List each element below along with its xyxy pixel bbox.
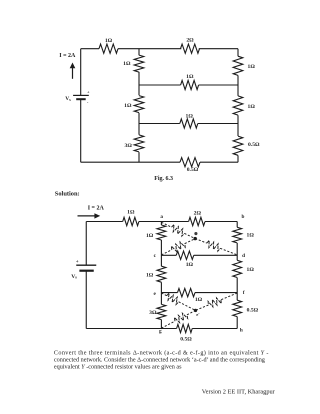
wire bottom rail g-h solution fig <box>86 328 237 330</box>
resistor 1&#937; d-f solution fig <box>233 260 255 277</box>
svg-text:0.5Ω: 0.5Ω <box>180 337 192 343</box>
svg-text:c: c <box>154 253 157 259</box>
star node e' (lower Y center) <box>194 309 200 317</box>
svg-text:e: e <box>153 291 156 297</box>
dashed Y-resistor c to star node (upper) <box>161 239 195 255</box>
resistor 1&#937; b-d solution fig <box>233 227 255 243</box>
svg-text:1Ω: 1Ω <box>247 233 255 239</box>
wire left branch solution fig <box>85 222 87 329</box>
paragraph text line 1 <box>54 349 269 356</box>
footer Version 2 EE IIT, Kharagpur <box>202 389 276 396</box>
svg-text:Version 2 EE IIT, Kharagpur: Version 2 EE IIT, Kharagpur <box>202 389 276 396</box>
svg-text:3Ω: 3Ω <box>149 310 157 316</box>
svg-text:d: d <box>242 253 245 259</box>
dashed Y-resistor e to star node e' (lower) <box>161 293 195 310</box>
svg-text:1Ω: 1Ω <box>186 74 194 80</box>
star node label dot <box>194 232 197 235</box>
svg-text:e′: e′ <box>196 312 199 317</box>
svg-text:h: h <box>240 328 243 334</box>
svg-text:Convert the three terminals: Convert the three terminals Δ-network (a… <box>54 349 269 356</box>
resistor 0.5&#937; f-h solution fig <box>233 300 259 316</box>
resistor 1&#937; top-left solution fig <box>123 210 139 226</box>
svg-text:Vs: Vs <box>65 96 71 102</box>
wire rail e-f fig6.3 <box>139 123 238 125</box>
svg-text:I = 2A: I = 2A <box>88 206 105 212</box>
wire right branch b-d-f-h solution fig <box>236 222 238 329</box>
wire left branch fig6.3 <box>80 49 82 163</box>
resistor 1&#937; top-left fig6.3 <box>99 38 118 54</box>
wire top rail fig6.3 <box>81 48 238 50</box>
resistor 1&#937; rail c-d solution fig <box>176 251 194 268</box>
paragraph text line 2 <box>54 357 265 364</box>
svg-text:1Ω: 1Ω <box>124 103 132 109</box>
node h <box>240 328 243 334</box>
wire rail e-f solution fig <box>161 292 237 294</box>
svg-text:Vs: Vs <box>71 274 77 280</box>
svg-text:a: a <box>160 214 163 220</box>
svg-text:equivalent Y -connected resist: equivalent Y -connected resistor values … <box>54 364 182 371</box>
voltage source Vs (battery) solution fig <box>71 260 96 280</box>
node f <box>243 290 245 296</box>
heading Solution: <box>55 190 80 197</box>
svg-text:+: + <box>76 260 79 265</box>
svg-text:1Ω: 1Ω <box>195 297 203 303</box>
wire inner column fig6.3 <box>138 49 140 163</box>
current source arrow I=2A fig6.3 <box>59 53 76 79</box>
svg-text:I = 2A: I = 2A <box>59 53 76 59</box>
resistor 1&#937; node a-c fig6.3 <box>123 55 144 72</box>
dashed Y-resistor g to star node e' (lower) <box>161 310 195 328</box>
svg-text:0.5Ω: 0.5Ω <box>247 308 259 314</box>
svg-text:+: + <box>87 90 90 95</box>
wire rail c-d fig6.3 <box>139 84 238 86</box>
svg-text:-: - <box>87 99 89 104</box>
svg-text:1Ω: 1Ω <box>127 210 135 216</box>
wire top rail solution fig <box>86 221 237 223</box>
svg-text:1Ω: 1Ω <box>248 104 256 110</box>
resistor 0.5&#937; bottom fig6.3 <box>180 158 200 174</box>
svg-text:1Ω: 1Ω <box>248 64 256 70</box>
svg-text:b: b <box>242 214 245 220</box>
node e <box>153 291 156 297</box>
svg-text:1Ω: 1Ω <box>247 267 255 273</box>
resistor 1&#937; node b-d fig6.3 <box>233 56 255 75</box>
resistor 1&#937; rail e-f solution fig <box>178 288 203 302</box>
wire right branch fig6.3 <box>237 49 239 163</box>
resistor 2&#937; top-right fig6.3 <box>181 37 200 53</box>
wire inner column a-c-e-g solution fig <box>160 222 162 329</box>
resistor 0.5&#937; node f-h fig6.3 <box>233 136 260 155</box>
node g <box>159 329 162 335</box>
svg-text:2Ω: 2Ω <box>186 37 194 43</box>
node c <box>154 253 157 259</box>
voltage source Vs (battery) fig6.3 <box>65 90 90 105</box>
star node (upper Y center) <box>194 232 198 240</box>
resistor 3&#937; e-g solution fig <box>149 304 166 319</box>
resistor 0.5&#937; bottom g-h solution fig <box>177 324 193 342</box>
svg-text:1Ω: 1Ω <box>186 114 194 120</box>
svg-text:1Ω: 1Ω <box>146 233 154 239</box>
current label I=2A with arrow <box>78 206 105 219</box>
svg-text:connected network. Consider th: connected network. Consider the Δ-connec… <box>54 357 265 364</box>
node d <box>242 253 245 259</box>
svg-text:1Ω: 1Ω <box>105 38 113 44</box>
svg-text:2Ω: 2Ω <box>194 210 202 216</box>
resistor 1&#937; node d-f fig6.3 <box>233 96 255 115</box>
svg-text:3Ω: 3Ω <box>125 143 133 149</box>
svg-text:Solution:: Solution: <box>55 190 80 197</box>
dashed Y-resistor star node to d (upper) <box>195 239 237 255</box>
resistor 1&#937; rail e-f fig6.3 <box>180 114 198 129</box>
caption Fig. 6.3 <box>154 176 173 182</box>
node b <box>242 214 245 220</box>
resistor 3&#937; node e-g fig6.3 <box>125 135 144 152</box>
dashed Y-resistor a to star node (upper) <box>161 222 195 238</box>
svg-text:1Ω: 1Ω <box>186 262 194 268</box>
resistor 1&#937; a-c solution fig <box>146 225 166 240</box>
wire rail c-d solution fig <box>161 254 237 256</box>
dashed Y-resistor f to star node e' (lower) <box>196 293 238 310</box>
resistor 1&#937; c-e solution fig <box>146 266 166 282</box>
svg-text:0.5Ω: 0.5Ω <box>187 167 199 173</box>
node a <box>160 214 163 220</box>
svg-text:1Ω: 1Ω <box>146 272 154 278</box>
resistor 2&#937; top-right solution fig <box>189 210 205 225</box>
svg-text:Fig. 6.3: Fig. 6.3 <box>154 176 173 182</box>
svg-text:f: f <box>243 290 245 296</box>
svg-text:0.5Ω: 0.5Ω <box>248 142 260 148</box>
resistor 1&#937; rail c-d fig6.3 <box>181 74 199 90</box>
resistor 1&#937; node c-e fig6.3 <box>124 96 144 113</box>
svg-text:1Ω: 1Ω <box>123 61 131 67</box>
wire bottom rail fig6.3 <box>81 161 238 163</box>
svg-text:g: g <box>159 329 162 335</box>
paragraph text line 3 <box>54 364 182 371</box>
